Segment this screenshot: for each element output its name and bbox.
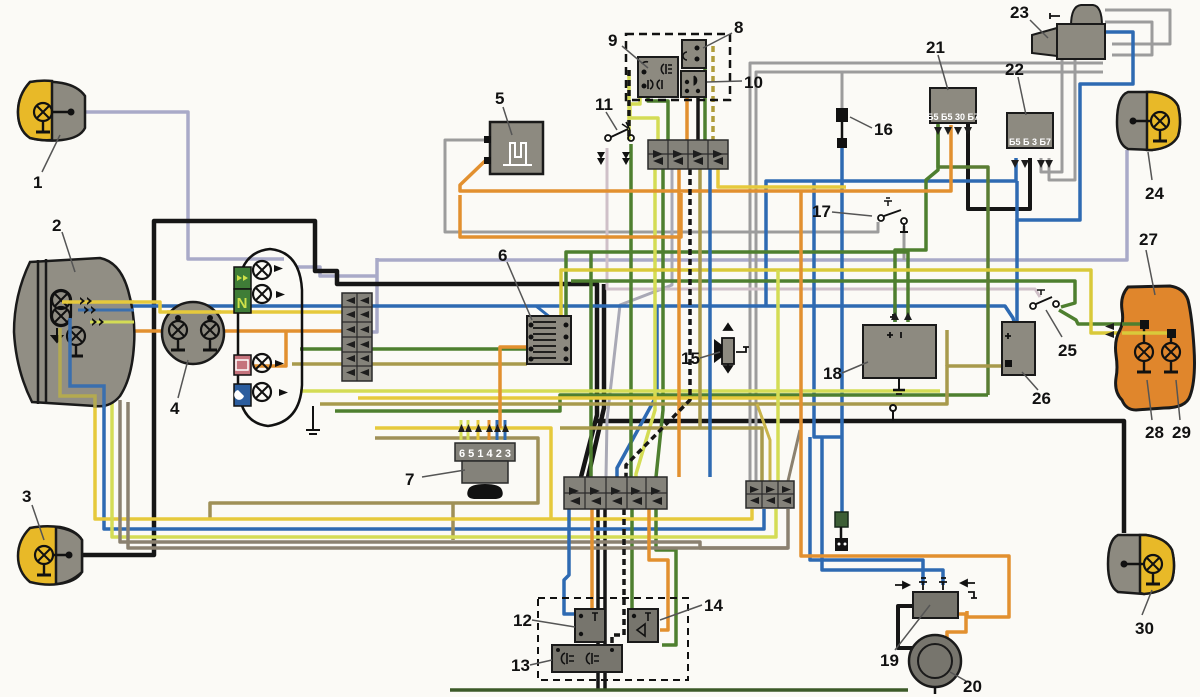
wire yellow headlamp interior	[62, 300, 134, 304]
wire orange to coil14 wrap	[649, 509, 668, 630]
turn lamp 3 (rear left)	[18, 526, 82, 584]
wire olive connector drop	[698, 169, 702, 428]
svg-text:N: N	[237, 295, 248, 312]
wire dark green bottom bus	[450, 688, 908, 692]
pin arrows below relay 21	[934, 127, 972, 135]
battery pin arrows	[891, 312, 912, 320]
box 10	[681, 71, 706, 97]
wire gray HT lead B	[756, 72, 1103, 481]
label 18	[823, 362, 868, 383]
svg-text:25: 25	[1058, 341, 1077, 360]
wire lavender stub down	[372, 258, 377, 332]
wire black long to lamp 30	[597, 421, 1124, 533]
wire orange fusebox to relay21	[460, 125, 951, 191]
wire orange headlamp to cluster	[135, 329, 342, 333]
svg-text:24: 24	[1145, 184, 1164, 203]
connector arrows top strip	[653, 150, 723, 165]
coil 12	[575, 609, 605, 642]
wire green to coil14	[630, 509, 634, 609]
wire green brake circuit	[571, 281, 1075, 307]
wire blue drop to connector	[617, 306, 657, 477]
svg-text:7: 7	[405, 470, 414, 489]
wire green long drop center	[589, 252, 593, 477]
connector strip bottom-left (5x2)	[564, 477, 667, 509]
headlamp housing 2	[14, 258, 134, 406]
pin arrows tail lamp 27	[1105, 323, 1114, 338]
wire green wrap coil14	[656, 509, 676, 645]
wire blue battery bus	[110, 306, 1015, 325]
turn lamp 1 (front left)	[18, 81, 85, 141]
label 4	[170, 360, 188, 418]
headlamp 24	[1117, 92, 1180, 150]
wire dashed ignition box9 drop	[627, 70, 631, 140]
wire orange connector drop	[677, 169, 681, 477]
connector arrows bottom-right strip	[750, 486, 791, 504]
wire gray HT lead A	[750, 63, 1103, 481]
label 5	[495, 89, 512, 135]
wire orange rectifier to generator	[947, 614, 966, 641]
wire black rectifier19 to generator	[898, 606, 918, 654]
label 28	[1145, 380, 1164, 442]
svg-text:11: 11	[595, 95, 613, 114]
svg-text:27: 27	[1139, 230, 1158, 249]
wire yellow ignition loop	[375, 428, 551, 518]
relay 22	[1007, 113, 1053, 148]
label 3	[22, 487, 44, 540]
wire olive lower bus	[560, 428, 762, 481]
wire chartreuse main drop	[636, 169, 655, 477]
ground at black bus	[890, 405, 896, 421]
wire orange generator feed	[801, 191, 1009, 617]
dashed box (8,9,10)	[626, 34, 730, 100]
wire orange ignition pin	[488, 420, 491, 440]
label 20	[950, 672, 982, 696]
svg-text:6 5 1 4 2 3: 6 5 1 4 2 3	[459, 448, 511, 460]
label 22	[1005, 60, 1026, 115]
label 15	[681, 349, 720, 368]
wire gray relay22 to coil B	[1049, 59, 1075, 180]
wire yellow branch to right connector	[757, 404, 770, 481]
svg-text:16: 16	[874, 120, 893, 139]
svg-text:Б5 Б5 30 Б7: Б5 Б5 30 Б7	[927, 112, 979, 122]
chevrons in headlamp	[80, 297, 104, 326]
fuse box 5	[484, 122, 543, 174]
regulator 26	[1002, 322, 1035, 375]
wire lavender turn-signal left	[85, 112, 284, 259]
plug 16	[836, 108, 848, 148]
speedometer 4	[162, 302, 224, 364]
wire yellow high beam long	[718, 169, 846, 187]
wire black second drop	[588, 284, 604, 477]
svg-text:18: 18	[823, 364, 842, 383]
svg-text:9: 9	[608, 31, 617, 50]
switch 17	[878, 198, 908, 232]
wire blue headlamp interior	[70, 318, 104, 408]
label 7	[405, 470, 465, 489]
wire yellow speedo interior	[167, 310, 221, 314]
svg-text:3: 3	[22, 487, 31, 506]
wire gray coil loop B	[1105, 22, 1152, 55]
svg-text:17: 17	[812, 202, 831, 221]
wire gray switch17 drop	[903, 226, 906, 260]
wire chartreuse drop to right connector	[776, 270, 780, 481]
switch 25	[1030, 290, 1059, 309]
svg-text:6: 6	[498, 246, 507, 265]
generator 20	[909, 635, 961, 694]
label 27	[1139, 230, 1158, 295]
wire brown bottom long B	[128, 402, 788, 548]
svg-text:14: 14	[704, 596, 723, 615]
box 8	[682, 40, 706, 68]
dashed box (12,13,14)	[538, 598, 688, 680]
ground at olive bus	[306, 406, 320, 434]
wire olive headlamp interior	[60, 328, 95, 408]
wire gray plug16 top stub	[841, 72, 844, 108]
svg-text:20: 20	[963, 677, 982, 696]
svg-text:1: 1	[33, 173, 42, 192]
wire green switch25 to tail	[1059, 310, 1141, 324]
breaker 13	[552, 645, 622, 672]
wire white horn-switch to brake-switch	[607, 148, 1040, 297]
wire blue ignition bus	[766, 158, 1016, 306]
label 2	[52, 216, 75, 272]
svg-text:12: 12	[513, 611, 532, 630]
horn 15	[714, 324, 749, 372]
coil 14	[628, 609, 658, 642]
connector block (6x2 vertical)	[342, 293, 372, 381]
wire orange box10 drop	[685, 95, 689, 140]
wire yellow bottom long A	[60, 328, 752, 519]
wire green handlebar to battery	[566, 252, 908, 322]
svg-text:21: 21	[926, 38, 945, 57]
wire green connector drop	[656, 169, 663, 477]
svg-text:26: 26	[1032, 389, 1051, 408]
wire blue link 22pin to bus	[1015, 181, 1019, 220]
svg-text:8: 8	[734, 18, 743, 37]
pin arrows above ignition switch 7	[458, 424, 509, 432]
wire blue battery pin branch	[893, 306, 897, 322]
wire green cluster to switch6	[300, 347, 527, 351]
wire orange cluster loop	[253, 331, 286, 366]
wire blue connector drop right	[708, 169, 712, 477]
wire blue coil feed	[1017, 32, 1133, 326]
wire dashed olive drop from box8	[711, 46, 715, 140]
svg-text:4: 4	[170, 399, 180, 418]
wire orange mid bus	[460, 193, 681, 237]
label 6	[498, 246, 532, 320]
pin arrows below relay 22	[1011, 160, 1053, 168]
wire yellow mid bus	[358, 396, 800, 400]
wire green switch11 drop	[629, 144, 633, 477]
wire black ground verticals bottom	[596, 509, 600, 690]
wire yellow headlamp to speedo	[72, 302, 224, 312]
wire olive regulator bus	[320, 366, 1003, 404]
label 19	[880, 605, 930, 670]
wire yellow speedo to cluster	[224, 310, 342, 314]
tail lamp 27	[1116, 286, 1195, 410]
label 30	[1135, 590, 1154, 638]
svg-text:2: 2	[52, 216, 61, 235]
label 23	[1010, 3, 1048, 38]
svg-text:19: 19	[880, 651, 899, 670]
svg-text:28: 28	[1145, 423, 1164, 442]
wire green mid bus	[335, 395, 988, 411]
wire gray fusebox to switch17	[445, 140, 878, 232]
wire gray connector diagonal	[606, 169, 672, 477]
wire brown bottom long A	[120, 400, 788, 548]
wire green relay21 drop	[895, 123, 938, 322]
wire green box9 drop	[648, 95, 668, 140]
relay 21	[927, 88, 979, 123]
ignition coil 23	[1032, 5, 1105, 59]
label 26	[1022, 372, 1051, 408]
label 29	[1172, 380, 1191, 442]
wire blue headlamp exit	[78, 309, 134, 312]
label 14	[660, 596, 723, 620]
wire blue dip to switch6	[536, 306, 571, 330]
handlebar switch 6	[527, 316, 571, 364]
svg-text:22: 22	[1005, 60, 1024, 79]
wire gray relay22 to coil A	[1041, 59, 1062, 172]
wire dashed ignition main	[626, 169, 690, 477]
svg-text:29: 29	[1172, 423, 1191, 442]
rectifier 19	[895, 578, 977, 618]
wire chartreuse low bus	[300, 389, 940, 393]
wire orange to coil12	[590, 509, 594, 609]
wire brown diagonal to right connector	[788, 430, 800, 481]
label 9	[608, 31, 648, 68]
svg-text:23: 23	[1010, 3, 1029, 22]
svg-text:10: 10	[744, 73, 763, 92]
connector strip bottom-right (3x2)	[746, 481, 794, 508]
svg-text:15: 15	[681, 349, 700, 368]
battery 18	[863, 314, 936, 394]
svg-text:13: 13	[511, 656, 530, 675]
arrows below switch 11	[597, 152, 630, 165]
connector arrows vertical block	[346, 297, 369, 376]
wire chartreuse headlamp exit	[90, 321, 134, 324]
switch 11	[605, 122, 634, 141]
headlight switch 9	[638, 57, 678, 97]
plug 16b lower	[835, 512, 848, 551]
wire blue ignition pins	[496, 420, 499, 440]
label 12	[513, 611, 575, 630]
connector strip top (4x2)	[648, 140, 728, 169]
wire yellow ignition pin	[477, 420, 480, 440]
tail lamp 30	[1108, 535, 1174, 594]
wire black frame main	[70, 221, 597, 555]
label 16	[850, 117, 893, 139]
connector arrows bottom-left strip	[569, 487, 662, 505]
wire blue bottom long from headlamp	[70, 318, 764, 529]
label 1	[33, 135, 60, 192]
wire blue plug16 lead	[840, 148, 844, 512]
wire green relay21 drop B	[938, 125, 988, 395]
svg-text:30: 30	[1135, 619, 1154, 638]
wire gray coil loop A	[1105, 10, 1170, 44]
label 11	[595, 95, 617, 130]
instrument cluster oval	[234, 249, 302, 426]
wire yellow bottom long B	[112, 396, 776, 537]
label 25	[1046, 310, 1077, 360]
wire orange drop to switch6	[500, 347, 528, 428]
svg-text:Б5 Б 3 Б7: Б5 Б 3 Б7	[1009, 137, 1051, 147]
wire dashed ignition to breaker	[612, 509, 624, 645]
wire black relay21 to relay22	[968, 123, 1030, 209]
label 13	[511, 656, 552, 675]
wire chartreuse box9 to connector	[630, 95, 658, 140]
svg-text:5: 5	[495, 89, 504, 108]
wire chartreuse tail feed	[561, 270, 1168, 333]
label 21	[926, 38, 948, 90]
label 17	[812, 202, 872, 221]
ignition switch 7	[455, 443, 515, 499]
wire blue to coil12	[564, 509, 575, 614]
label 24	[1145, 152, 1164, 203]
label 8	[703, 18, 743, 48]
label 10	[707, 73, 763, 92]
wire chartreuse ignition pins	[460, 420, 463, 440]
wire lavender long to lamp 24	[296, 267, 377, 276]
